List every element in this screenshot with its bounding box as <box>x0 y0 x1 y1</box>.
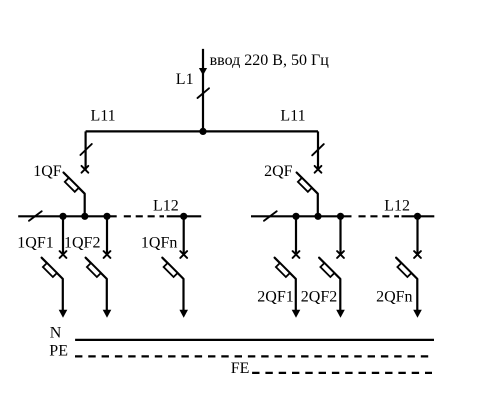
svg-text:L11: L11 <box>91 107 116 124</box>
svg-text:1QF2: 1QF2 <box>64 234 100 251</box>
svg-text:PE: PE <box>49 342 68 359</box>
svg-text:1QF1: 1QF1 <box>17 234 53 251</box>
svg-text:L1: L1 <box>176 71 194 88</box>
svg-text:1QF: 1QF <box>33 163 62 180</box>
svg-text:2QFn: 2QFn <box>376 289 412 306</box>
svg-text:L12: L12 <box>153 197 179 214</box>
svg-text:2QF1: 2QF1 <box>257 289 293 306</box>
svg-text:L11: L11 <box>280 107 305 124</box>
svg-text:ввод 220 В, 50 Гц: ввод 220 В, 50 Гц <box>210 52 330 69</box>
svg-text:1QFn: 1QFn <box>141 234 177 251</box>
svg-text:2QF2: 2QF2 <box>301 289 337 306</box>
svg-text:L12: L12 <box>384 197 410 214</box>
svg-text:2QF: 2QF <box>264 163 293 180</box>
svg-text:FE: FE <box>231 360 250 377</box>
svg-text:N: N <box>50 324 62 341</box>
